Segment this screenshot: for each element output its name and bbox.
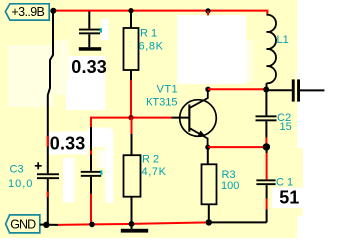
svg-text:C3: C3 bbox=[10, 163, 24, 175]
svg-text:4,7K: 4,7K bbox=[142, 166, 167, 178]
wire: collector to L1 bottom (red) bbox=[208, 88, 266, 90]
node base/divider junction bbox=[128, 115, 133, 120]
wire: emitter net (red) bbox=[208, 146, 263, 148]
resistor R3 bbox=[202, 147, 217, 222]
svg-text:10,0: 10,0 bbox=[8, 178, 33, 190]
node above collector column (erased wire stub) bbox=[205, 8, 210, 13]
node emitter net / C2 / C1 bbox=[263, 143, 270, 150]
node: coupling cap to bus bbox=[89, 222, 95, 228]
dithered background patches bbox=[8, 45, 54, 107]
node at R1 top bbox=[128, 8, 133, 13]
GND label bbox=[6, 215, 44, 233]
inductor L1 bbox=[267, 15, 277, 87]
antenna coupling capacitor (thick plates) bbox=[266, 79, 324, 101]
svg-text:51: 51 bbox=[279, 188, 299, 208]
svg-text:+3..9В: +3..9В bbox=[11, 5, 45, 19]
capacitor C3 (electrolytic) bbox=[35, 162, 59, 179]
resistor R2 bbox=[124, 118, 141, 224]
svg-text:R3: R3 bbox=[222, 169, 236, 181]
svg-text:R 1: R 1 bbox=[140, 28, 157, 40]
svg-text:6,8K: 6,8K bbox=[139, 41, 164, 53]
svg-text:VT1: VT1 bbox=[157, 84, 179, 96]
capacitor 0.33 (base coupling) bbox=[81, 170, 103, 224]
wire: left column from V+ down to C3 bbox=[48, 13, 53, 173]
svg-text:GND: GND bbox=[10, 217, 36, 231]
svg-text:R 2: R 2 bbox=[142, 154, 159, 166]
capacitor 0.33 (top, bypass to chassis) bbox=[79, 12, 102, 51]
svg-text:L1: L1 bbox=[277, 34, 289, 46]
top V+ rail wire bbox=[53, 11, 267, 15]
node L1/antenna bbox=[263, 87, 269, 93]
svg-text:100: 100 bbox=[221, 180, 239, 192]
ground (chassis) symbol bbox=[131, 224, 133, 229]
node collector bbox=[205, 87, 210, 92]
ground bus wire bbox=[46, 224, 58, 226]
svg-text:C 1: C 1 bbox=[276, 176, 293, 188]
node: R3 to bus bbox=[206, 219, 212, 225]
capacitor C1 bbox=[256, 147, 275, 222]
node GND bbox=[43, 222, 49, 228]
node emitter bbox=[205, 145, 210, 150]
svg-text:0.33: 0.33 bbox=[71, 57, 107, 77]
wire: base net (red) from divider to VT1 base bbox=[91, 117, 172, 119]
wire: corner down to coupling cap 0.33 bbox=[90, 117, 92, 127]
node V+ at power label bbox=[50, 8, 56, 14]
node: R2 to bus bbox=[129, 221, 135, 227]
white eraser patches bbox=[297, 0, 339, 238]
svg-text:15: 15 bbox=[280, 121, 292, 133]
transistor VT1 KT315 bbox=[180, 89, 217, 147]
capacitor C2 bbox=[256, 92, 277, 145]
resistor R1 bbox=[124, 12, 139, 117]
power label +3..9V bbox=[5, 4, 49, 20]
svg-text:КТ315: КТ315 bbox=[146, 97, 177, 109]
svg-text:0.33: 0.33 bbox=[50, 134, 86, 154]
wire: C3 bottom to GND node bbox=[47, 179, 49, 225]
